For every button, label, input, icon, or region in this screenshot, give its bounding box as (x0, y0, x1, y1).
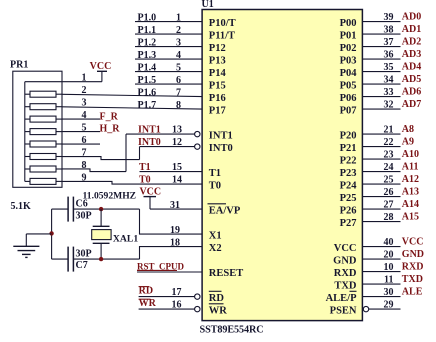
wire PR1 pin 4 stub / net F_R (62, 110, 100, 121)
svg-text:38: 38 (384, 24, 394, 35)
svg-text:15: 15 (172, 162, 182, 173)
svg-text:P20: P20 (340, 131, 357, 142)
wire P1.5 to pin 6 (135, 75, 202, 86)
pin name T0 (inside U1) (209, 181, 221, 192)
svg-text:P07: P07 (340, 106, 357, 117)
svg-text:U1: U1 (202, 0, 214, 10)
svg-text:VCC: VCC (402, 237, 424, 248)
pin name RESET (inside U1) (209, 268, 243, 279)
svg-text:29: 29 (384, 299, 394, 310)
wire PR1 pin 5 stub / net H_R (62, 123, 100, 134)
svg-text:A12: A12 (402, 174, 419, 185)
svg-text:PR1: PR1 (10, 60, 28, 71)
svg-text:P26: P26 (340, 206, 357, 217)
pin name P03 pin 36 net AD3 (340, 49, 422, 67)
svg-text:3: 3 (176, 37, 181, 48)
wire PR1 pin 3 to P1.7 pin 8 (62, 100, 202, 111)
svg-text:AD3: AD3 (402, 49, 421, 60)
svg-text:5.1K: 5.1K (11, 201, 32, 212)
IC U1 microcontroller SST89E554RC body (202, 0, 363, 321)
svg-text:P16: P16 (209, 93, 226, 104)
wire PR1 pin 6 stub (62, 135, 100, 146)
resistor PR1 element 1 (25, 91, 62, 97)
wire C6 branch (XTAL1 net) (52, 208, 140, 210)
wire C7 branch (XTAL2 net) (52, 258, 140, 260)
svg-text:4: 4 (82, 110, 87, 121)
wire P1.4 to pin 5 (135, 62, 202, 73)
svg-text:5: 5 (176, 62, 181, 73)
svg-text:GND: GND (402, 249, 424, 260)
svg-text:A15: A15 (402, 212, 419, 223)
wire vertical INT1 riser (125, 134, 127, 172)
wire INT0 to pin 12 (138, 137, 195, 148)
node RD open circle at pin 17 (195, 294, 200, 299)
capacitor C7 (68, 247, 92, 272)
svg-text:6: 6 (176, 75, 181, 86)
svg-text:11: 11 (384, 274, 393, 285)
svg-text:22: 22 (384, 137, 394, 148)
wire P1.0 to pin 1 (135, 12, 202, 23)
svg-text:AD1: AD1 (402, 24, 421, 35)
pin name X1 (inside U1) (209, 231, 222, 242)
pin name P11/T (inside U1) (209, 31, 235, 42)
pin name P13 (inside U1) (209, 56, 226, 67)
svg-text:T0: T0 (209, 181, 221, 192)
svg-text:EA/VP: EA/VP (209, 206, 241, 217)
svg-text:7: 7 (176, 87, 181, 98)
pin name P26 pin 27 net A14 (340, 199, 419, 217)
svg-text:35: 35 (384, 62, 394, 73)
pin name T1 (inside U1) (209, 168, 221, 179)
wire vertical INT0 riser (139, 147, 141, 160)
svg-text:ALE/P: ALE/P (326, 293, 358, 304)
wire WR to pin 16 (139, 299, 195, 310)
pin name EA/VP (inside U1) (208, 204, 241, 217)
resistor PR1 element 5 (25, 141, 62, 147)
svg-text:F_R: F_R (100, 111, 119, 122)
pin name TXD pin 11 net TXD (334, 274, 423, 292)
svg-text:AD4: AD4 (402, 62, 421, 73)
pin name ALE/P pin 30 net ALE (326, 287, 423, 305)
pin name P22 pin 23 net A10 (340, 149, 419, 167)
net label T0 pin 14 (139, 175, 182, 186)
resistor PR1 element 6 (25, 154, 62, 160)
svg-text:T1: T1 (139, 162, 151, 173)
power symbol VCC (top left) (90, 61, 112, 82)
svg-text:37: 37 (384, 37, 394, 48)
svg-text:A8: A8 (402, 124, 414, 135)
svg-text:27: 27 (384, 199, 394, 210)
svg-text:P1.3: P1.3 (138, 50, 157, 61)
node INT1 open circle at pin 13 (195, 131, 200, 136)
svg-text:P10/T: P10/T (209, 18, 236, 29)
svg-text:33: 33 (384, 87, 394, 98)
pin name P07 pin 32 net AD7 (340, 99, 422, 117)
value label SST89E554RC (200, 325, 264, 336)
pin name P06 pin 33 net AD6 (340, 87, 422, 105)
svg-text:7: 7 (82, 148, 87, 159)
pin name P25 pin 26 net A13 (340, 187, 419, 205)
svg-text:P03: P03 (340, 56, 357, 67)
svg-text:H_R: H_R (100, 123, 121, 134)
power symbol VCC (above pin 31) (139, 187, 161, 209)
resistor PR1 element 2 (25, 104, 62, 110)
svg-text:2: 2 (176, 25, 181, 36)
pin name P23 pin 24 net A11 (340, 162, 419, 180)
svg-text:P06: P06 (340, 93, 357, 104)
pin name P15 (inside U1) (209, 81, 226, 92)
svg-text:13: 13 (172, 125, 182, 136)
pin name P27 pin 28 net A15 (340, 212, 419, 230)
pin name VCC pin 40 net VCC (334, 237, 424, 255)
svg-text:39: 39 (384, 12, 394, 23)
svg-text:P1.0: P1.0 (138, 12, 157, 23)
crystal XAL1 (92, 209, 139, 259)
svg-text:28: 28 (384, 212, 394, 223)
net label H_R (100, 123, 121, 134)
pin name P02 pin 37 net AD2 (340, 37, 422, 55)
resistor PR1 element 7 (25, 166, 62, 172)
svg-text:10: 10 (384, 262, 394, 273)
svg-text:X1: X1 (209, 231, 222, 242)
svg-text:RESET: RESET (209, 268, 243, 279)
svg-text:P13: P13 (209, 56, 226, 67)
svg-text:40: 40 (384, 237, 394, 248)
svg-text:9: 9 (82, 172, 87, 183)
wire EA/VP pin 31 (150, 200, 202, 211)
svg-text:1: 1 (176, 12, 181, 23)
pin name RXD pin 10 net RXD (334, 262, 424, 280)
pin name P21 pin 22 net A9 (340, 137, 414, 155)
svg-text:A9: A9 (402, 137, 414, 148)
svg-text:VCC: VCC (334, 243, 357, 254)
svg-text:C7: C7 (76, 260, 88, 271)
wire PR1 pin 9 to T0 pin 14 (62, 172, 202, 184)
resistor PR1 element 3 (25, 116, 62, 122)
svg-text:1: 1 (82, 73, 87, 84)
svg-text:36: 36 (384, 49, 394, 60)
svg-text:T1: T1 (209, 168, 221, 179)
svg-text:P1.1: P1.1 (138, 25, 157, 36)
pin name P10/T (inside U1) (209, 18, 236, 29)
wire INT1 to pin 13 (126, 125, 195, 136)
pin name INT0 (inside U1) (209, 143, 233, 154)
svg-text:ALE: ALE (402, 287, 423, 298)
svg-text:RD: RD (209, 293, 225, 304)
pin name GND pin 20 net GND (333, 249, 424, 267)
svg-text:A13: A13 (402, 187, 419, 198)
PR1 common bus wire (24, 82, 26, 182)
pin name P01 pin 38 net AD1 (340, 24, 422, 42)
svg-text:P23: P23 (340, 168, 357, 179)
svg-text:AD5: AD5 (402, 74, 421, 85)
resistor pack PR1 outline (10, 60, 62, 188)
svg-text:12: 12 (172, 137, 182, 148)
wire P1.1 to pin 2 (135, 25, 202, 36)
pin name WR (inside U1) (209, 304, 228, 317)
svg-text:TXD: TXD (402, 274, 423, 285)
svg-text:6: 6 (82, 135, 87, 146)
svg-text:AD2: AD2 (402, 37, 421, 48)
svg-text:P24: P24 (340, 181, 358, 192)
node WR open circle at pin 16 (195, 306, 200, 311)
svg-text:C6: C6 (76, 199, 88, 210)
svg-text:31: 31 (170, 200, 180, 211)
svg-text:INT1: INT1 (209, 131, 233, 142)
svg-text:P12: P12 (209, 43, 226, 54)
svg-text:RXD: RXD (402, 262, 424, 273)
pin name P04 pin 35 net AD4 (340, 62, 422, 80)
net label RST_CPUD (137, 261, 185, 271)
node INT0 open circle at pin 12 (195, 144, 200, 149)
wire RESET pin (137, 271, 202, 273)
svg-text:8: 8 (176, 100, 181, 111)
svg-text:P1.4: P1.4 (138, 62, 157, 73)
svg-text:P17: P17 (209, 106, 226, 117)
svg-text:P11/T: P11/T (209, 31, 235, 42)
wire X1 riser and pin 19 (140, 209, 203, 236)
svg-text:20: 20 (384, 249, 394, 260)
ground (13, 246, 39, 257)
svg-text:A11: A11 (402, 162, 419, 173)
svg-text:AD0: AD0 (402, 12, 421, 23)
pin name P12 (inside U1) (209, 43, 226, 54)
capacitor C6 (68, 197, 92, 222)
svg-text:P01: P01 (340, 31, 357, 42)
pin name P14 (inside U1) (209, 68, 227, 79)
svg-text:P1.2: P1.2 (138, 37, 157, 48)
svg-text:A14: A14 (402, 199, 419, 210)
svg-text:TXD: TXD (334, 281, 357, 292)
svg-text:X2: X2 (209, 243, 222, 254)
pin name P24 pin 25 net A12 (340, 174, 419, 192)
svg-text:P25: P25 (340, 193, 357, 204)
pin name INT1 (inside U1) (209, 131, 233, 142)
node junction XTAL2 dot (99, 257, 103, 261)
svg-text:P05: P05 (340, 81, 357, 92)
pin name P17 (inside U1) (209, 106, 226, 117)
svg-text:VCC: VCC (90, 61, 112, 72)
svg-text:2: 2 (82, 85, 87, 96)
svg-text:30: 30 (384, 287, 394, 298)
pin number PR1 pin 3 (82, 98, 87, 109)
svg-text:P1.6: P1.6 (138, 87, 157, 98)
svg-text:14: 14 (172, 175, 182, 186)
svg-text:SST89E554RC: SST89E554RC (200, 325, 264, 336)
svg-text:PSEN: PSEN (330, 306, 357, 317)
wire PR1 pin 2 to P1.6 pin 7 (62, 87, 202, 98)
wire P1.2 to pin 3 (135, 37, 202, 48)
svg-text:25: 25 (384, 174, 394, 185)
svg-text:RXD: RXD (334, 268, 357, 279)
svg-text:P1.7: P1.7 (138, 100, 157, 111)
svg-text:P04: P04 (340, 68, 358, 79)
wire ground branch (26, 234, 51, 246)
net label WR with overline (139, 298, 157, 309)
svg-text:34: 34 (384, 74, 394, 85)
svg-text:8: 8 (82, 160, 87, 171)
svg-text:5: 5 (82, 123, 87, 134)
node junction ground rail dot (49, 231, 53, 235)
svg-text:11.0592MHZ: 11.0592MHZ (83, 190, 137, 201)
svg-text:T0: T0 (139, 175, 151, 186)
value label 11.0592MHZ (83, 190, 137, 201)
svg-text:AD6: AD6 (402, 87, 421, 98)
wire PR1 pin 1 to VCC (25, 73, 102, 84)
svg-text:INT0: INT0 (209, 143, 233, 154)
pin name P16 (inside U1) (209, 93, 226, 104)
wire T1 to pin 15 (139, 162, 202, 173)
wire PR1 pin 8 to T1 row (jog down) (62, 160, 126, 172)
svg-text:INT0: INT0 (138, 137, 161, 148)
svg-text:24: 24 (384, 162, 394, 173)
pin name P00 pin 39 net AD0 (340, 12, 422, 30)
svg-text:4: 4 (176, 50, 181, 61)
svg-text:3: 3 (82, 98, 87, 109)
pin name X2 (inside U1) (209, 243, 222, 254)
svg-text:17: 17 (172, 287, 182, 298)
wire X2 riser and pin 18 (140, 237, 203, 259)
pin name PSEN pin 29 (330, 299, 401, 316)
svg-text:P00: P00 (340, 18, 357, 29)
svg-text:WR: WR (209, 306, 228, 317)
svg-text:GND: GND (333, 256, 357, 267)
wire P1.3 to pin 4 (135, 50, 202, 61)
svg-text:18: 18 (170, 237, 180, 248)
svg-text:30P: 30P (76, 211, 92, 222)
svg-text:P21: P21 (340, 143, 357, 154)
pin number PR1 pin 2 (82, 85, 87, 96)
net label RD with overline (139, 285, 153, 296)
svg-text:XAL1: XAL1 (113, 234, 138, 245)
svg-text:A10: A10 (402, 149, 419, 160)
svg-text:16: 16 (172, 299, 182, 310)
svg-text:P02: P02 (340, 43, 357, 54)
svg-text:P15: P15 (209, 81, 226, 92)
svg-text:30P: 30P (76, 248, 92, 259)
pin name P20 pin 21 net A8 (340, 124, 414, 142)
svg-text:P14: P14 (209, 68, 227, 79)
svg-text:32: 32 (384, 99, 394, 110)
svg-text:INT1: INT1 (138, 125, 161, 136)
node junction XTAL1 dot (99, 207, 103, 211)
svg-text:23: 23 (384, 149, 394, 160)
svg-text:P1.5: P1.5 (138, 75, 157, 86)
svg-text:26: 26 (384, 187, 394, 198)
svg-text:21: 21 (384, 124, 394, 135)
pin name P05 pin 34 net AD5 (340, 74, 422, 92)
wire RD to pin 17 (139, 287, 195, 298)
wire PR1 pin 7 to INT0 net (jog down) (62, 148, 140, 160)
svg-text:P27: P27 (340, 218, 357, 229)
resistor PR1 element 8 (25, 178, 62, 184)
pin name RD (inside U1) (209, 291, 225, 304)
value label 5.1K (11, 201, 32, 212)
net label F_R (100, 111, 119, 122)
wire left rail between C6 and C7 (51, 209, 53, 259)
svg-text:AD7: AD7 (402, 99, 421, 110)
svg-text:P22: P22 (340, 156, 357, 167)
resistor PR1 element 4 (25, 129, 62, 135)
svg-text:19: 19 (170, 225, 180, 236)
